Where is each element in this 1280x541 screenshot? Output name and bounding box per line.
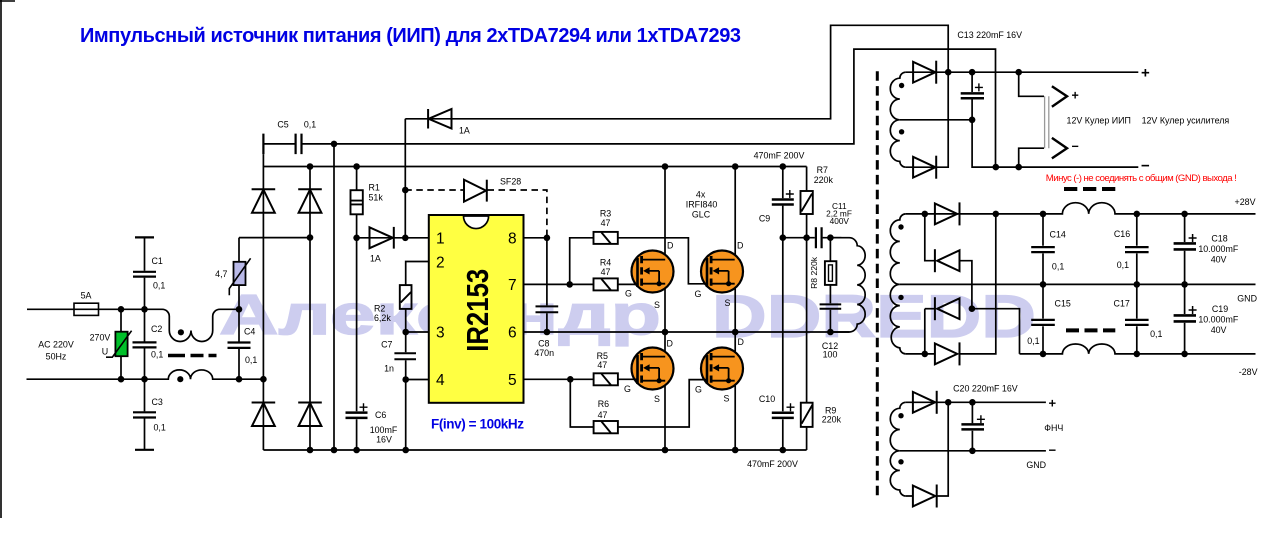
capacitor C6 plus sign xyxy=(360,403,368,411)
resistor R6 wires to M4 gate xyxy=(570,379,704,427)
capacitor C6 wire xyxy=(356,238,358,450)
svg-text:400V: 400V xyxy=(830,216,850,226)
svg-text:40V: 40V xyxy=(1211,325,1227,335)
resistor R2 lower wire xyxy=(405,309,407,332)
wire GND rail xyxy=(900,283,1256,285)
wire DC plus bus xyxy=(263,166,806,168)
diode D2 pointing left xyxy=(935,249,960,272)
capacitor C19 wires xyxy=(1184,284,1186,354)
diode D6 12V bottom xyxy=(913,156,936,179)
svg-text:220k: 220k xyxy=(822,415,842,425)
svg-text:S: S xyxy=(725,298,731,308)
svg-text:IRFI840: IRFI840 xyxy=(686,200,718,210)
capacitor C2 plates xyxy=(133,342,157,347)
thermistor 4,7 wire xyxy=(238,238,240,310)
capacitor C1 wire xyxy=(144,237,146,309)
capacitor C12 plates xyxy=(820,304,842,308)
svg-text:−: − xyxy=(1072,140,1079,154)
svg-text:C15: C15 xyxy=(1055,299,1071,309)
wire 12V rectifier plus row xyxy=(906,71,1139,73)
svg-text:470n: 470n xyxy=(534,348,554,358)
svg-text:0,1: 0,1 xyxy=(1027,336,1039,346)
svg-text:470mF 200V: 470mF 200V xyxy=(754,150,805,160)
svg-text:+: + xyxy=(1141,65,1150,82)
resistor R9 body xyxy=(801,403,813,427)
varistor RU 270V body wire xyxy=(120,309,122,379)
thermistor 4,7 body xyxy=(229,258,250,295)
bridge left rail xyxy=(262,154,264,450)
bridge diode top-left xyxy=(252,189,276,213)
capacitor C3 plates and bottom bar xyxy=(133,412,156,450)
wire AC line lower with CM choke lower winding xyxy=(27,370,264,379)
capacitor C20 plates xyxy=(961,424,984,429)
svg-text:47: 47 xyxy=(601,267,611,277)
wire pin2 to R2 xyxy=(406,262,429,286)
capacitor C16 plates xyxy=(1125,247,1149,252)
svg-text:100mF: 100mF xyxy=(370,425,398,435)
capacitor C17 plates xyxy=(1125,320,1149,325)
svg-text:6,2k: 6,2k xyxy=(374,313,391,323)
diode SF28 xyxy=(464,180,487,202)
svg-text:IR2153: IR2153 xyxy=(461,269,495,352)
svg-text:U: U xyxy=(102,347,108,357)
transformer secondary LPF winding xyxy=(890,402,906,496)
resistor R9 wires xyxy=(806,238,808,450)
wire D8 row and riser xyxy=(906,402,948,496)
capacitor C5 plates and left bar xyxy=(263,134,301,155)
capacitor C2 wire xyxy=(144,309,146,379)
wire pin8 row xyxy=(524,237,547,239)
svg-text:0,1: 0,1 xyxy=(1117,260,1129,270)
L1 core dashes xyxy=(1064,187,1115,191)
svg-text:47: 47 xyxy=(601,218,611,228)
wire fan plus branch xyxy=(1019,72,1044,96)
wire pin3 row xyxy=(406,331,429,333)
fan connector bars xyxy=(1045,96,1049,148)
resistor R7 wires xyxy=(806,167,808,238)
wire C11 rail xyxy=(783,237,842,239)
capacitor C13 plus sign xyxy=(975,83,983,91)
capacitor C16 wires xyxy=(1136,214,1138,285)
capacitor C18 wires xyxy=(1184,214,1186,285)
IC U1 notch xyxy=(464,216,489,229)
resistor R3 wires to M2 gate xyxy=(570,238,705,285)
svg-text:0,1: 0,1 xyxy=(153,281,165,291)
svg-text:D: D xyxy=(667,339,673,349)
wire pin6 midpoint rail xyxy=(524,331,850,333)
svg-text:1A: 1A xyxy=(459,126,470,136)
capacitor C15 plates xyxy=(1031,320,1055,325)
resistor R4 wires to M1 gate xyxy=(570,283,637,285)
svg-text:8: 8 xyxy=(508,230,517,247)
capacitor C12 wire xyxy=(829,310,831,332)
svg-text:+: + xyxy=(1072,88,1079,102)
diode D4 xyxy=(935,342,960,365)
resistor R3 body xyxy=(594,232,618,244)
svg-text:47: 47 xyxy=(598,410,608,420)
wire pin1 row with diode 1A xyxy=(357,237,429,239)
svg-text:D: D xyxy=(667,241,673,251)
capacitor C8 wires xyxy=(546,238,548,332)
dashed SF28 bypass wires xyxy=(405,190,547,235)
wire C5 tap to minus bus xyxy=(333,144,335,450)
svg-text:51k: 51k xyxy=(369,193,384,203)
svg-text:C4: C4 xyxy=(244,327,255,337)
wire 12V minus row xyxy=(972,120,1138,167)
resistor R2 body xyxy=(400,285,412,309)
capacitor C18 plus sign xyxy=(1189,234,1197,242)
wire minus28 rail with inductor L2 xyxy=(1020,344,1256,354)
svg-text:47: 47 xyxy=(597,360,607,370)
svg-text:SF28: SF28 xyxy=(500,176,521,186)
svg-text:Минус (-) не соединять с общим: Минус (-) не соединять с общим (GND) вых… xyxy=(1046,173,1237,184)
capacitor C8 plates xyxy=(536,306,559,312)
resistor R5 body xyxy=(594,373,618,385)
svg-text:2: 2 xyxy=(436,254,445,271)
wire D4 output riser to plus xyxy=(960,214,996,354)
svg-text:C2: C2 xyxy=(151,324,162,334)
svg-text:4,7: 4,7 xyxy=(215,269,227,279)
resistor R1 wires xyxy=(356,167,358,238)
transistor M3 IRFI840 xyxy=(632,348,674,390)
resistor R4 body xyxy=(594,278,618,290)
wire pin4 row xyxy=(406,379,429,381)
capacitor C13 wires xyxy=(971,72,973,120)
border frame left edge xyxy=(0,0,15,518)
capacitor C20 plus sign xyxy=(977,415,985,423)
svg-text:D: D xyxy=(737,241,743,251)
svg-text:0,1: 0,1 xyxy=(154,423,166,433)
fan chevron top xyxy=(1052,86,1067,107)
wire LPF minus row xyxy=(900,450,1046,452)
svg-text:D: D xyxy=(738,337,744,347)
IC U1 IR2153 body xyxy=(429,215,524,403)
capacitor C10 plates xyxy=(772,413,794,418)
svg-text:0,1: 0,1 xyxy=(304,120,316,130)
capacitor C4 plates xyxy=(228,343,251,348)
svg-text:C19: C19 xyxy=(1212,304,1228,314)
wire stair1 vertical down to pin1 row xyxy=(404,119,406,238)
svg-text:1n: 1n xyxy=(384,363,394,373)
svg-text:40V: 40V xyxy=(1211,255,1227,265)
capacitor C18 plates xyxy=(1174,243,1196,249)
svg-text:0,1: 0,1 xyxy=(245,355,257,365)
capacitor C14 wires xyxy=(1042,214,1044,285)
wire diode D3 riser xyxy=(924,309,926,354)
svg-text:C7: C7 xyxy=(381,339,392,349)
wire D4 row xyxy=(906,353,935,355)
svg-text:GND: GND xyxy=(1026,460,1046,470)
svg-text:ФНЧ: ФНЧ xyxy=(1044,423,1063,433)
svg-text:0,1: 0,1 xyxy=(1150,329,1162,339)
capacitor C4 wire xyxy=(238,309,240,379)
svg-text:R8 220k: R8 220k xyxy=(809,256,819,289)
svg-text:0,1: 0,1 xyxy=(151,350,163,360)
CM choke polarity dots xyxy=(178,329,184,335)
capacitor C9 wires xyxy=(782,167,784,238)
svg-text:−: − xyxy=(1049,443,1057,458)
svg-text:G: G xyxy=(625,289,632,299)
svg-text:4: 4 xyxy=(436,372,445,389)
svg-text:C1: C1 xyxy=(152,256,163,266)
diode 1A lower pointing right xyxy=(370,227,394,249)
svg-text:R6: R6 xyxy=(598,399,609,409)
svg-text:C6: C6 xyxy=(375,410,386,420)
resistor R7 body xyxy=(801,191,813,214)
svg-text:0,1: 0,1 xyxy=(1052,262,1064,272)
svg-text:AC 220V: AC 220V xyxy=(38,340,74,350)
svg-text:C14: C14 xyxy=(1050,230,1066,240)
wire M1 M3 drain-source rail xyxy=(664,167,666,451)
svg-text:C18: C18 xyxy=(1211,234,1227,244)
resistor R6 body xyxy=(594,421,618,433)
svg-text:G: G xyxy=(624,384,631,394)
svg-text:12V Кулер усилителя: 12V Кулер усилителя xyxy=(1142,115,1230,125)
diode D7 LPF xyxy=(913,391,937,414)
svg-text:C9: C9 xyxy=(759,214,770,224)
transformer core xyxy=(876,71,879,496)
wire diode D2 output xyxy=(960,261,972,309)
svg-text:GLC: GLC xyxy=(692,210,711,220)
bridge diode bottom-left xyxy=(252,403,276,427)
svg-text:G: G xyxy=(695,385,702,395)
wire diode 1A top row stair1 to 12V plus node xyxy=(405,25,948,119)
svg-text:7: 7 xyxy=(508,277,517,294)
svg-text:50Hz: 50Hz xyxy=(46,352,67,362)
transformer secondary main winding xyxy=(890,214,906,354)
capacitor C11 plates xyxy=(816,227,822,248)
diode D8 LPF xyxy=(913,485,937,508)
svg-text:5: 5 xyxy=(508,372,517,389)
svg-text:S: S xyxy=(654,300,660,310)
wire main rectifier plus row with inductor L1 xyxy=(906,203,1256,214)
svg-text:1: 1 xyxy=(436,230,445,247)
svg-text:3: 3 xyxy=(436,325,445,342)
capacitor C3 wire xyxy=(144,379,146,450)
svg-text:R3: R3 xyxy=(600,209,611,219)
varistor RU 270V body xyxy=(106,331,132,358)
wire fan minus branch xyxy=(1019,148,1044,167)
wire DC minus bus xyxy=(263,449,806,451)
bridge diode bottom-right xyxy=(298,403,322,427)
svg-text:6: 6 xyxy=(508,325,517,342)
svg-text:10.000mF: 10.000mF xyxy=(1198,244,1239,254)
capacitor C7 wires xyxy=(405,332,407,380)
svg-text:S: S xyxy=(724,393,730,403)
svg-text:GND: GND xyxy=(1237,293,1257,303)
svg-text:100: 100 xyxy=(823,350,838,360)
wire minus28 takeoff xyxy=(972,309,1020,354)
svg-text:G: G xyxy=(695,289,702,299)
capacitor C17 wires xyxy=(1136,284,1138,354)
capacitor C9 plus sign xyxy=(786,190,794,198)
svg-text:-28V: -28V xyxy=(1239,367,1258,377)
diode 1A top pointing left xyxy=(428,109,451,129)
wire 12V D6 row and riser to plus node xyxy=(906,72,948,167)
svg-text:16V: 16V xyxy=(376,435,392,445)
svg-text:C3: C3 xyxy=(152,397,163,407)
wire pin5 row xyxy=(524,378,571,380)
svg-text:1A: 1A xyxy=(370,254,381,264)
transformer secondary 12V winding xyxy=(890,72,906,167)
resistor R1 body xyxy=(351,190,363,214)
svg-text:10.000mF: 10.000mF xyxy=(1198,314,1239,324)
bridge diode top-right xyxy=(298,189,322,213)
capacitor C14 plates xyxy=(1031,247,1055,252)
wire thermistor row to bridge right rail xyxy=(239,237,310,239)
transformer winding polarity dots xyxy=(899,83,904,88)
svg-text:DDREDD: DDREDD xyxy=(712,283,1036,350)
diode D1 xyxy=(935,202,960,225)
wire pin7 row xyxy=(524,283,570,285)
wire 12V secondary mid tap xyxy=(900,119,972,121)
svg-text:270V: 270V xyxy=(90,333,111,343)
svg-text:5A: 5A xyxy=(81,291,92,301)
wire AC line upper with fuse and CM choke upper winding xyxy=(27,309,239,341)
capacitor C13 plates xyxy=(961,93,984,98)
svg-text:12V Кулер ИИП: 12V Кулер ИИП xyxy=(1067,115,1131,125)
capacitor C6 plates xyxy=(346,413,368,418)
svg-text:Импульсный источник питания (И: Импульсный источник питания (ИИП) для 2х… xyxy=(80,25,741,47)
svg-text:F(inv) = 100kHz: F(inv) = 100kHz xyxy=(431,417,524,432)
svg-text:220k: 220k xyxy=(814,175,834,185)
bridge right rail xyxy=(309,167,311,451)
svg-text:+28V: +28V xyxy=(1235,197,1256,207)
resistor R8 wires xyxy=(829,238,831,304)
capacitor C7 plates xyxy=(394,353,416,359)
svg-text:C5: C5 xyxy=(277,120,288,130)
transistor M2 IRFI840 xyxy=(701,251,743,293)
svg-text:C20 220mF 16V: C20 220mF 16V xyxy=(953,384,1018,394)
wire diode D2 riser and row xyxy=(925,214,935,261)
fan chevron bottom xyxy=(1052,138,1067,159)
wire diode D3 row xyxy=(925,308,935,310)
diode D3 pointing left xyxy=(935,297,960,320)
capacitor C20 wires xyxy=(971,402,973,451)
gate stubs inside transistor circles xyxy=(633,284,708,380)
capacitor C5 wire xyxy=(263,143,334,145)
svg-text:C17: C17 xyxy=(1114,299,1130,309)
wire C7 node to minus bus xyxy=(405,380,407,451)
L2 core dashes xyxy=(1066,328,1115,332)
CM choke core dashes xyxy=(168,354,217,358)
svg-text:470mF 200V: 470mF 200V xyxy=(747,459,798,469)
fuse F1 5A xyxy=(74,303,99,315)
resistor R5 wires to M3 gate xyxy=(570,378,633,380)
wire M2 M4 drain-source rail xyxy=(734,167,736,451)
svg-text:R7: R7 xyxy=(817,165,828,175)
capacitor C1 plates and top bar xyxy=(133,237,156,276)
svg-text:R4: R4 xyxy=(600,258,611,268)
svg-text:S: S xyxy=(654,394,660,404)
svg-text:+: + xyxy=(1049,396,1057,411)
svg-text:C13 220mF 16V: C13 220mF 16V xyxy=(957,30,1022,40)
transistor M1 IRFI840 xyxy=(632,251,674,293)
transformer primary winding xyxy=(830,238,865,332)
svg-text:4x: 4x xyxy=(696,189,706,199)
capacitor C10 wires xyxy=(782,238,784,450)
capacitor C9 plates xyxy=(772,200,794,205)
wire C5 row to stair2 to 12V minus node xyxy=(334,49,996,167)
capacitor C10 plus sign xyxy=(787,403,795,411)
capacitor C19 plates xyxy=(1174,315,1196,321)
capacitor C19 plus sign xyxy=(1189,306,1197,314)
wire LPF plus row xyxy=(906,401,1046,403)
svg-text:R1: R1 xyxy=(369,183,380,193)
diode D5 12V top xyxy=(913,61,936,84)
svg-text:C16: C16 xyxy=(1114,229,1130,239)
capacitor C15 wires xyxy=(1042,284,1044,354)
transistor M4 IRFI840 xyxy=(701,348,743,390)
resistor R8 body xyxy=(825,261,837,285)
svg-text:C10: C10 xyxy=(759,394,775,404)
